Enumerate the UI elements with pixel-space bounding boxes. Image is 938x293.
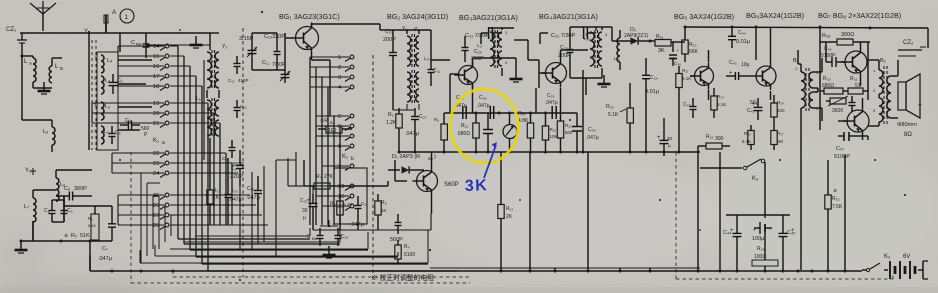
wire nested hooks [309,228,311,236]
svg-text:A: A [29,61,32,66]
nested bus 2 [184,241,340,243]
svg-text:BG₁ 3AG23(3G1C): BG₁ 3AG23(3G1C) [279,12,340,21]
svg-text:23: 23 [153,161,159,167]
svg-text:1K: 1K [213,195,220,201]
svg-text:.047μ: .047μ [586,135,599,141]
wire CB6-C19 [320,225,338,227]
svg-text:30: 30 [338,194,344,200]
svg-text:C₃₂ 7/30P: C₃₂ 7/30P [551,33,576,39]
resistor R17 [678,66,680,74]
cap C17 [239,158,241,166]
svg-text:27K: 27K [324,174,334,180]
svg-text:300: 300 [715,136,724,142]
wire left mesh1 [21,56,23,120]
trimmer CA [251,45,253,50]
resistor R5 [398,108,400,114]
svg-text:+: + [676,48,679,53]
svg-text:C₄₆: C₄₆ [824,46,832,52]
svg-text:20: 20 [153,111,159,117]
svg-text:B6: B6 [312,236,318,241]
svg-text:C₂₀: C₂₀ [385,29,393,35]
svg-text:5100: 5100 [404,252,415,258]
svg-text:56K: 56K [689,49,699,55]
svg-text:B4: B4 [330,120,336,125]
svg-text:CZ₁: CZ₁ [6,27,16,33]
svg-text:L₅: L₅ [104,129,109,135]
svg-text:※: ※ [833,188,837,194]
nested bus 1 [195,235,310,237]
cap C12 [236,56,238,64]
svg-text:K₁: K₁ [153,138,159,144]
transistor BG1 [296,27,319,50]
svg-text:L₃: L₃ [105,104,110,110]
svg-text:2: 2 [338,65,341,71]
svg-text:R₃: R₃ [213,188,219,194]
resistor R25 [750,125,752,131]
dashed box mid vertical [675,152,677,279]
resistor R15 [542,126,548,140]
resistor R24 [773,95,775,103]
svg-text:R₂₄: R₂₄ [777,100,784,105]
bus y152 [399,151,700,153]
resistor R20 [684,27,686,40]
resistor R12 [557,121,563,138]
wire T3 top [596,26,612,28]
coil L6b [56,178,59,201]
svg-text:R₁₀: R₁₀ [461,123,468,129]
diode D1 [388,169,400,171]
svg-text:160: 160 [328,128,337,134]
wire trimmer col [251,33,253,45]
svg-text:5.1K: 5.1K [742,139,751,144]
wire BG6 [770,50,772,62]
svg-text:R₇: R₇ [316,174,322,180]
wire LA bottom [32,82,34,88]
svg-text:C₄₄: C₄₄ [723,230,732,236]
svg-text:R₂₇: R₂₇ [777,131,784,136]
cap C40 [731,28,733,36]
svg-text:22: 22 [153,151,159,157]
wires K1a left feeders [117,46,119,86]
resistor R27 [773,125,775,131]
svg-text:C₁₆: C₁₆ [231,188,238,193]
ground mid-top [195,36,197,45]
svg-text:8Ω: 8Ω [904,132,912,138]
svg-text:+: + [729,70,732,76]
svg-text:29: 29 [338,184,344,190]
svg-text:.047μ: .047μ [405,131,419,137]
wire BG3 emitter [560,88,562,121]
cap C19 [337,228,339,236]
svg-text:C₂₉: C₂₉ [547,93,555,99]
ground S60P [328,246,330,255]
ground bottom-left [20,241,22,250]
svg-text:200P: 200P [471,56,484,62]
wire y45 mid [146,44,210,46]
switch K3 [700,167,742,169]
svg-text:L₈: L₈ [196,42,201,48]
cap C34 [645,66,647,75]
svg-text:B: B [60,66,63,71]
wire nested left hooks [139,250,141,263]
wire C7 bottom [89,241,91,271]
wire BG1 base [285,37,293,39]
cap C47 [843,132,845,141]
svg-text:B₂: B₂ [880,58,886,64]
svg-text:5: 5 [338,114,341,120]
wire x812 down [811,150,813,270]
transistor BG3 [546,63,567,84]
svg-text:18: 18 [153,84,159,90]
svg-text:A: A [112,9,117,16]
svg-text:.047μ: .047μ [477,103,490,109]
wire BG2 collector [472,58,474,66]
dashed switch plane K1a [242,28,244,277]
blue arrow annotation [484,145,496,178]
svg-text:100: 100 [777,108,785,113]
transistor BG2 [459,66,478,85]
svg-text:C₄₅: C₄₅ [787,230,795,236]
svg-text:Y: Y [918,104,922,110]
cap C16 [227,184,229,195]
K1b vertical bundle [309,57,311,225]
svg-text:26: 26 [153,203,159,209]
coil box outline [97,52,118,150]
matrix bundle short [213,113,215,225]
cap C7 [111,210,113,224]
svg-text:L₁₇: L₁₇ [477,43,483,48]
svg-text:51K: 51K [80,233,90,239]
svg-text:6V: 6V [903,254,910,260]
svg-text:0.01μ: 0.01μ [736,39,750,45]
svg-text:2K: 2K [506,214,513,220]
svg-text:L₁₀: L₁₀ [424,56,430,61]
nested bus 4 [155,255,398,257]
cap C22 [414,108,416,117]
resistor R32 [827,186,829,195]
meter M [503,125,517,139]
resistor R6 [441,124,447,140]
svg-text:L₂₀: L₂₀ [614,56,620,61]
wire B2 [868,125,879,127]
yellow highlight circle annotation [448,87,521,166]
svg-text:L₉: L₉ [196,96,201,102]
wire mid extra verticals [239,186,241,250]
svg-text:7/30P: 7/30P [272,62,286,68]
coil LB [49,66,52,83]
svg-text:50μ: 50μ [750,100,759,106]
wire x798 down [800,118,802,122]
resistor R23 [713,88,715,96]
capacitor in circle [487,113,489,129]
cap CB6b [319,228,321,236]
nested bus 3 [170,248,368,250]
coil L2 cap C1 [101,76,104,94]
svg-text:C₂₃: C₂₃ [300,198,308,204]
wire bottom BG8 [820,135,838,137]
svg-text:※R: ※R [320,118,328,124]
cap C45 [782,222,784,233]
antenna [42,14,44,31]
cap C15 [231,140,233,148]
cap C18 [257,182,259,191]
svg-text:R₁: R₁ [88,216,93,221]
switch wafer K1b contacts [350,55,354,59]
svg-text:27: 27 [153,213,159,219]
svg-text:C₁₇: C₁₇ [231,166,238,172]
wire left mesh2 [118,59,152,61]
cap C13 [236,100,238,108]
wire osc top [393,29,431,31]
cap near pot [851,96,853,103]
transistor BG-S60P [417,171,438,192]
svg-text:5.1K: 5.1K [88,223,97,228]
svg-text:B6: B6 [136,42,142,47]
svg-text:C₆: C₆ [64,186,70,192]
dashed switch plane K1b [372,55,374,283]
wire T2 [488,27,514,29]
wire BG2 base [450,73,458,75]
cap 560P [397,214,399,223]
svg-text:R₂₃: R₂₃ [717,94,724,99]
svg-text:19: 19 [153,101,159,107]
svg-text:C: C [131,40,135,46]
coil L5 cap C5 [101,126,104,144]
svg-text:BG₂ 3AG24(3G1D): BG₂ 3AG24(3G1D) [387,12,448,21]
dashed box bottom left [131,282,470,284]
svg-text:500: 500 [565,130,573,135]
wire C17 C18 [239,150,241,158]
svg-text:Y₃: Y₃ [222,44,227,50]
svg-text:15: 15 [153,54,159,60]
svg-text:+: + [657,135,661,141]
svg-text:28: 28 [153,223,159,229]
wire T3 bottom [601,68,603,78]
wire BG3 base [539,72,546,74]
cap C35 [663,128,665,140]
svg-text:.047μ: .047μ [350,222,364,228]
svg-text:BG₅ 3AX24(1G2B): BG₅ 3AX24(1G2B) [674,12,734,21]
wire x210 vert [209,33,211,50]
svg-text:200P: 200P [383,37,396,43]
svg-text:5.1K: 5.1K [343,202,352,207]
svg-text:C₃₀: C₃₀ [588,127,596,133]
wire block bus y230 [313,229,431,231]
svg-text:21: 21 [153,121,159,127]
wire x583 vertical [582,70,584,152]
svg-text:C₁₈: C₁₈ [247,186,254,192]
wire BG1 emitter [311,53,313,60]
svg-text:3: 3 [338,75,341,81]
svg-text:R₂₈: R₂₈ [822,33,830,39]
svg-text:b: b [351,156,354,162]
wire BG2 emitter [472,85,474,113]
svg-text:K₂: K₂ [884,254,891,260]
svg-text:R₂: R₂ [71,233,77,239]
svg-text:R₄: R₄ [404,244,410,250]
svg-text:R₅: R₅ [388,112,394,118]
switch wafer K1a contacts [165,44,169,48]
wire supply rail right [685,27,928,28]
resistor R13 [500,152,502,205]
svg-text:C₁₃: C₁₃ [240,104,247,109]
bus y268-270 long [90,270,862,272]
svg-text:C₁₂: C₁₂ [228,78,235,83]
svg-text:Φ80mm: Φ80mm [897,122,917,128]
svg-text:BG₃3AG21(3G1A): BG₃3AG21(3G1A) [459,13,518,22]
wire BG1 collector [311,24,313,27]
svg-text:R₁₅: R₁₅ [550,127,557,132]
svg-text:220P: 220P [230,174,243,180]
cap C21 [430,62,432,70]
svg-text:C₃₄: C₃₄ [650,75,658,81]
svg-text:C₂₁: C₂₁ [433,68,441,74]
node ant-coil [21,55,24,58]
wire mid verticals [529,152,531,271]
svg-text:10K: 10K [550,134,558,139]
svg-text:C₄₂: C₄₂ [747,108,755,114]
svg-text:R₃₀: R₃₀ [823,76,831,82]
wires lower left vertical feeders [140,173,142,263]
svg-text:K₁: K₁ [342,154,348,160]
svg-text:1: 1 [338,55,341,61]
transistor BG7 [845,51,867,73]
cap C31 series [481,32,489,34]
wire BGs base [340,185,352,187]
wire cap rail [726,214,790,216]
dashed box bottom right [676,278,893,280]
svg-text:300Ω: 300Ω [841,32,854,38]
svg-text:a: a [162,140,165,146]
svg-text:C₉: C₉ [67,208,73,214]
svg-text:μ: μ [668,143,671,148]
cap C44 [736,222,738,233]
svg-text:C₁₁: C₁₁ [262,60,269,66]
svg-text:1: 1 [125,14,129,21]
wire W1 detector line [444,112,577,114]
dashed box left vertical [130,152,132,283]
cap C23 [312,194,314,203]
svg-text:5.1K: 5.1K [717,102,726,107]
svg-text:100μ: 100μ [752,236,764,242]
svg-text:16: 16 [153,64,159,70]
box K1b lower contacts [334,168,367,224]
cap C30 [576,113,578,126]
svg-text:L₆: L₆ [43,129,48,135]
svg-text:17: 17 [153,74,159,80]
svg-text:C₄₇: C₄₇ [836,146,844,152]
wire osc rail204 [203,60,205,160]
svg-text:R₃₁: R₃₁ [850,76,858,82]
svg-text:C₄₃: C₄₃ [729,60,737,66]
svg-text:C₂₂: C₂₂ [419,114,427,120]
bus dots y152 [443,151,446,154]
svg-text:): ) [434,154,436,160]
svg-text:BG₄3AG21(3G1A): BG₄3AG21(3G1A) [539,12,598,21]
svg-text:5.1K: 5.1K [608,112,619,118]
wire x845 down [844,160,846,270]
svg-text:1K: 1K [381,208,387,213]
svg-text:C₂₈: C₂₈ [474,49,482,55]
coil L7 [33,198,36,222]
wire BG3 collector [560,50,562,59]
svg-text:C₂₅: C₂₅ [361,201,368,206]
svg-text:R₁₇: R₁₇ [682,68,689,73]
switch matrix bundle [177,46,179,239]
svg-text:C₃₆: C₃₆ [674,61,681,66]
svg-text:C₈: C₈ [44,208,50,214]
svg-text:24: 24 [153,171,160,177]
wire osc block [206,90,208,98]
cap C42 [757,98,759,107]
antenna jack A [105,15,107,33]
svg-text:C₁₉: C₁₉ [341,234,348,240]
diode D2 [612,40,631,42]
bus dots y271 [111,270,114,273]
svg-text:+: + [307,198,311,204]
svg-text:BG₇ BG₈ 2×3AX22(1G2B): BG₇ BG₈ 2×3AX22(1G2B) [818,11,901,20]
cap C38 [692,98,694,107]
svg-text:CZ₂: CZ₂ [903,40,914,46]
svg-text:R₈: R₈ [330,201,336,207]
svg-text:D₁ 2AP3 (R: D₁ 2AP3 (R [392,154,420,160]
coil L4 [101,55,104,73]
svg-text:7.5K: 7.5K [832,204,843,210]
transistor BG6 [756,66,776,86]
svg-text:μ: μ [303,215,306,221]
svg-text:50: 50 [778,139,784,144]
svg-text:R₆: R₆ [434,117,439,122]
svg-text:R₉: R₉ [381,200,387,206]
resistor R8 [339,194,341,201]
resistor R4 [397,240,399,245]
svg-text:C₂₆: C₂₆ [479,95,487,101]
transistor BG5 [695,67,714,86]
transistor BG8 [847,110,869,132]
IF transformer T2 [490,32,494,66]
wire BG5 [690,75,694,77]
resistor R9 [377,194,379,201]
nested bus 5 [140,262,428,264]
dashed gang link [91,40,93,150]
svg-text:3K: 3K [465,177,489,195]
svg-text:30: 30 [302,208,308,214]
wire LB top [51,58,53,62]
wire speaker [897,60,899,74]
svg-text:3K: 3K [658,48,665,54]
svg-text:C₇: C₇ [102,246,108,252]
wire BG8 [846,120,852,122]
svg-text:0.01μ: 0.01μ [645,89,659,95]
svg-text:.047μ: .047μ [246,195,260,201]
svg-text:R₁₄: R₁₄ [518,111,525,117]
cap 100u [759,222,761,234]
svg-text:.047μ: .047μ [545,100,558,106]
svg-text:S60P: S60P [444,182,459,188]
svg-text:BG₆3AX24(1G2B): BG₆3AX24(1G2B) [746,11,804,20]
svg-text:R₂₁: R₂₁ [706,134,714,140]
svg-text:200P: 200P [558,53,571,59]
svg-text:1.2K: 1.2K [386,120,397,126]
svg-text:R₂₀: R₂₀ [689,42,697,48]
wire B1 [797,50,799,64]
wire BG7 [860,42,862,47]
coil L3 [101,102,104,120]
pot 3600 [830,98,846,104]
svg-text:C₁₀330P: C₁₀330P [264,34,285,40]
wire vert x89 [88,31,90,150]
resistor R3 [209,182,211,190]
